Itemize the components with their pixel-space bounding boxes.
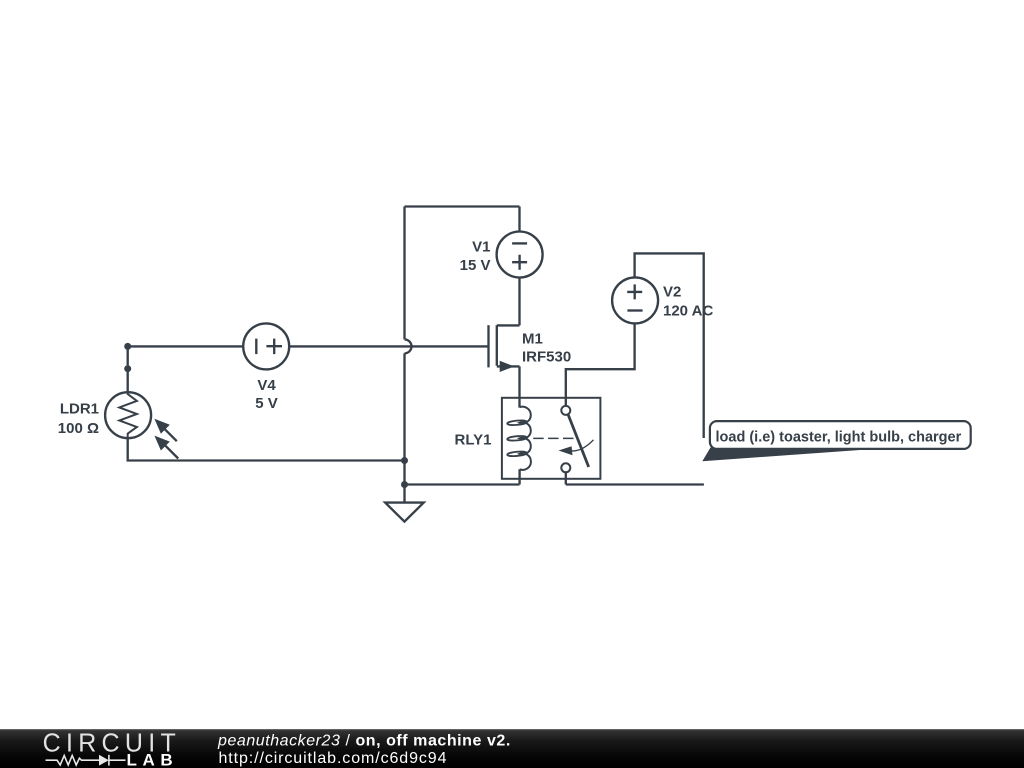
- wire LDR top node to V4: [128, 345, 244, 347]
- svg-text:120 AC: 120 AC: [663, 303, 713, 320]
- svg-text:V1: V1: [472, 239, 490, 256]
- V2 plus sign: [627, 284, 642, 299]
- photoresistor LDR1 circle: [105, 392, 151, 438]
- wire LDR top lead: [127, 369, 129, 393]
- wire V1 top lead: [518, 207, 520, 232]
- relay RLY1 box: [502, 398, 601, 479]
- svg-text:15 V: 15 V: [460, 257, 491, 274]
- svg-text:http://circuitlab.com/c6d9c94: http://circuitlab.com/c6d9c94: [219, 750, 448, 767]
- callout box: [710, 421, 971, 449]
- svg-text:5 V: 5 V: [255, 395, 278, 412]
- svg-text:LDR1: LDR1: [60, 401, 99, 418]
- wire V1 bottom to M1 drain: [518, 278, 520, 326]
- voltage source V1 circle: [497, 232, 543, 278]
- relay switch top contact: [561, 406, 570, 415]
- V1 plus sign: [512, 255, 527, 270]
- wire bottom left to relay coil: [405, 483, 520, 485]
- LDR1 zigzag: [119, 392, 137, 438]
- svg-text:V4: V4: [257, 377, 276, 394]
- svg-text:IRF530: IRF530: [522, 349, 571, 366]
- wire left vertical x404 down to node A: [403, 353, 405, 460]
- wire LDR bottom lead: [128, 438, 405, 460]
- voltage source V4 circle: [243, 323, 289, 369]
- node dot top-left: [124, 343, 131, 350]
- wire top rail horizontal: [405, 205, 520, 207]
- relay switch blade: [568, 415, 589, 467]
- V4 minus bar: [255, 339, 257, 355]
- node dot LDR terminal: [124, 365, 131, 372]
- transistor M1 drain lead: [497, 324, 520, 326]
- relay coil loop ellipses: [507, 420, 527, 426]
- svg-text:load (i.e) toaster, light bulb: load (i.e) toaster, light bulb, charger: [716, 429, 962, 445]
- wire gate horizontal from V4 to M1: [289, 345, 488, 347]
- svg-text:V2: V2: [663, 284, 681, 301]
- svg-text:100 Ω: 100 Ω: [58, 420, 99, 437]
- svg-text:peanuthacker23 / on, off machi: peanuthacker23 / on, off machine v2.: [217, 733, 511, 750]
- voltage source V2 circle: [612, 277, 658, 323]
- V1 minus sign: [512, 242, 527, 244]
- V4 plus sign: [266, 339, 282, 355]
- LDR1 light arrow 1: [154, 419, 176, 441]
- svg-text:LAB: LAB: [127, 750, 179, 768]
- wire V2 top path: [635, 253, 704, 438]
- ground symbol: [385, 503, 424, 522]
- V2 minus sign: [627, 309, 642, 311]
- relay switch arrow: [559, 440, 594, 455]
- node dot ground junction upper: [401, 457, 408, 464]
- relay switch bottom contact: [561, 463, 570, 472]
- relay coil: [520, 407, 531, 470]
- transistor M1 gate bar: [487, 325, 489, 367]
- wire ground stub: [403, 485, 405, 503]
- transistor M1 source lead: [497, 365, 520, 367]
- wire V2 bottom path: [566, 323, 635, 406]
- svg-text:M1: M1: [522, 330, 543, 347]
- logo resistor-diode glyph: [46, 755, 126, 766]
- transistor M1 channel bar: [496, 325, 498, 366]
- relay coil bottom lead: [518, 469, 520, 484]
- node dot ground junction lower: [401, 481, 408, 488]
- wire hop over gate wire: [405, 339, 412, 353]
- wire top rail left vertical: [403, 207, 405, 340]
- wire M1 source down to relay coil: [518, 366, 520, 407]
- relay switch bottom lead: [565, 472, 567, 484]
- wire stub down: [127, 346, 129, 368]
- wire bottom right from relay: [566, 483, 704, 485]
- transistor M1 source arrow: [500, 361, 515, 372]
- svg-text:RLY1: RLY1: [455, 432, 492, 449]
- wire node A down: [403, 461, 405, 485]
- relay dashed link: [533, 437, 573, 439]
- LDR1 light arrow 2: [154, 436, 178, 459]
- callout tail: [702, 448, 877, 462]
